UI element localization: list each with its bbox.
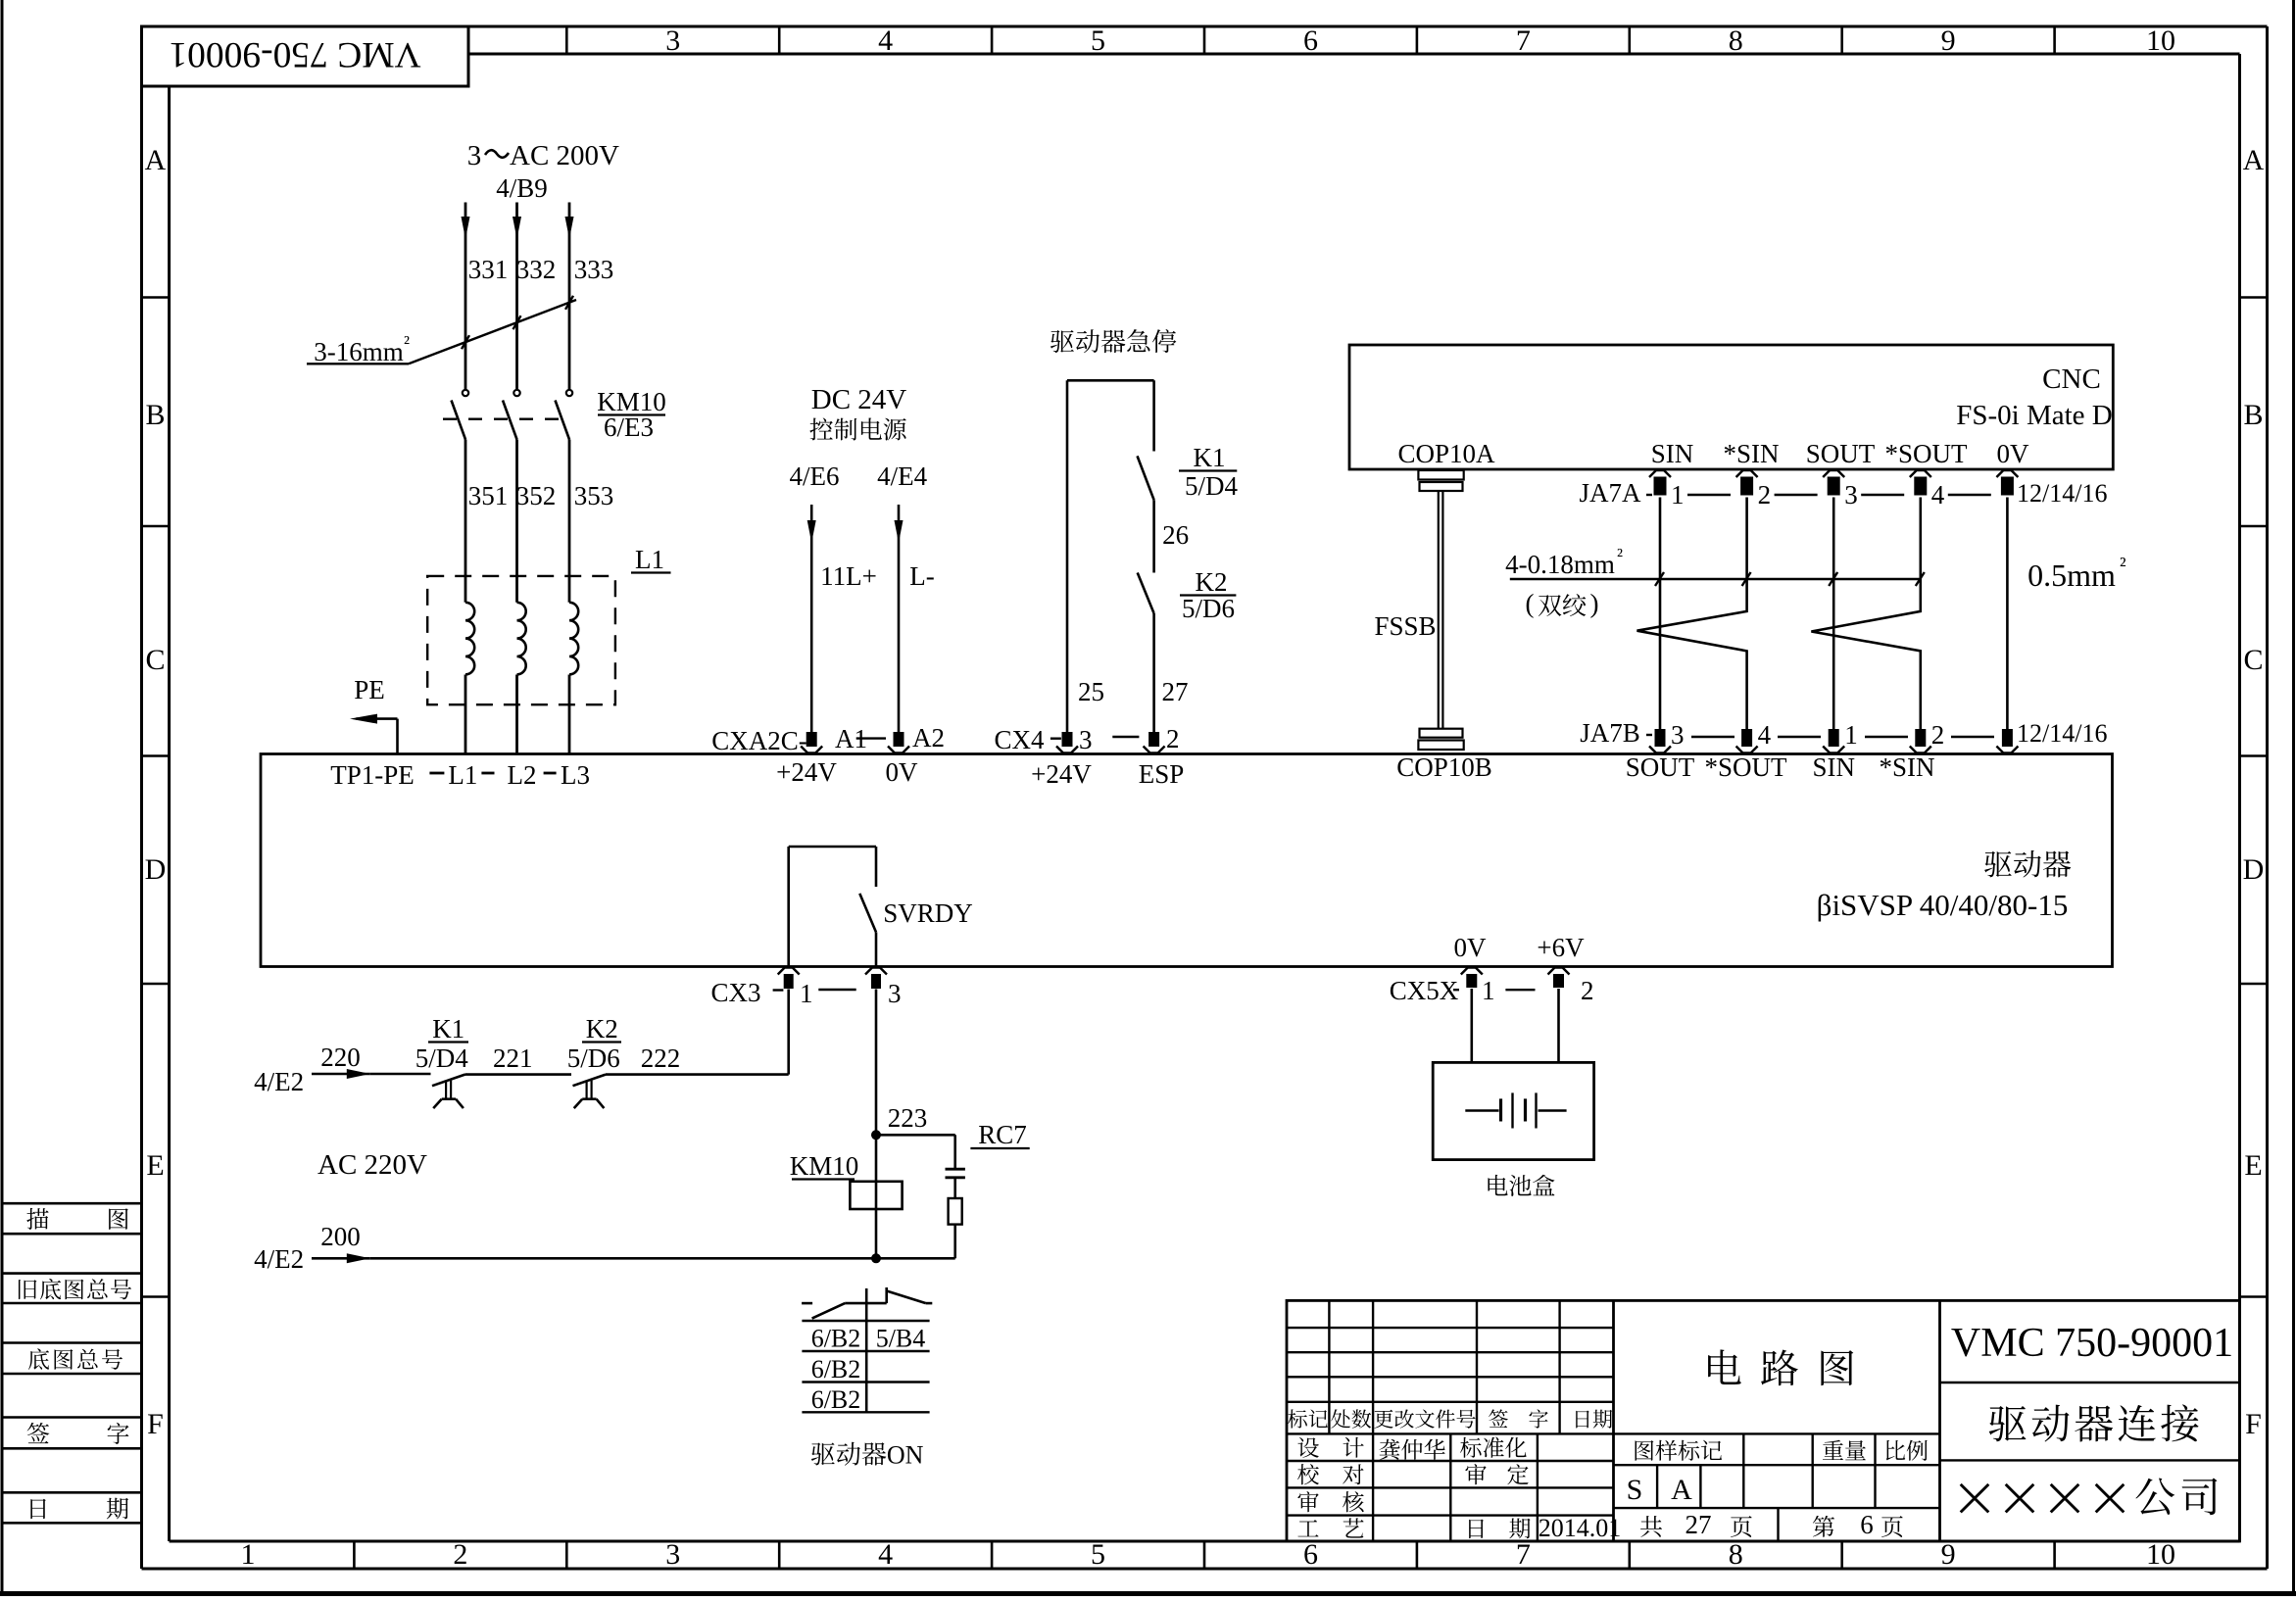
svg-text:βiSVSP 40/40/80-15: βiSVSP 40/40/80-15 <box>1817 888 2069 922</box>
label K1 5/D4 <box>1179 443 1239 501</box>
wire from CX3 pin3 down <box>875 990 878 1259</box>
svg-text:²: ² <box>2120 553 2126 577</box>
svg-text:+24V: +24V <box>776 757 837 787</box>
node label 332 <box>516 255 557 284</box>
svg-text:4-0.18mm: 4-0.18mm <box>1505 550 1615 579</box>
KM10 auxiliary contact diagram <box>802 1287 932 1412</box>
emergency stop loop wires <box>1067 380 1154 735</box>
node label 333 <box>574 255 614 284</box>
svg-text:3: 3 <box>665 24 680 57</box>
svg-text:E: E <box>146 1149 164 1182</box>
svg-text:353: 353 <box>574 481 614 510</box>
svg-text:D: D <box>2243 853 2265 886</box>
middle section grid <box>1614 1433 1940 1541</box>
svg-text:*SOUT: *SOUT <box>1704 752 1787 782</box>
node label 220 <box>320 1043 361 1072</box>
svg-text:200: 200 <box>320 1222 361 1251</box>
svg-text:CX5X: CX5X <box>1390 976 1459 1005</box>
connector CX4 pin 3 <box>994 725 1092 754</box>
svg-text:3: 3 <box>1844 480 1858 509</box>
svg-text:3: 3 <box>467 140 482 171</box>
svg-text:SOUT: SOUT <box>1626 752 1695 782</box>
svg-text:VMC 750-90001: VMC 750-90001 <box>1951 1321 2233 1366</box>
node label 353 <box>574 481 614 510</box>
cells S A <box>1627 1474 1693 1506</box>
reactor coils <box>465 603 578 754</box>
svg-text:3: 3 <box>1079 725 1093 754</box>
svg-text:VMC 750-90001: VMC 750-90001 <box>169 34 420 74</box>
svg-text:5/D4: 5/D4 <box>1185 471 1239 501</box>
label L- <box>909 561 934 591</box>
label 比例 <box>1886 1440 1928 1461</box>
svg-text:221: 221 <box>493 1043 533 1073</box>
svg-text:SIN: SIN <box>1651 439 1694 468</box>
svg-text:+6V: +6V <box>1537 933 1585 962</box>
svg-text:CX3: CX3 <box>710 978 760 1007</box>
svg-text:333: 333 <box>574 255 614 284</box>
connector CXA2C pin A2 <box>856 723 945 753</box>
svg-text:12/14/16: 12/14/16 <box>2017 719 2107 748</box>
FSSB fiber cable <box>1439 491 1443 729</box>
svg-text:PE: PE <box>354 675 385 704</box>
bus terminal labels TP1-PE L1 L2 L3 <box>330 760 590 790</box>
svg-text:0V: 0V <box>1454 933 1488 962</box>
label 底图总号 <box>28 1348 122 1369</box>
relay contact K1 (AC220V row) <box>432 1075 465 1109</box>
label 共 27 页 <box>1640 1510 1752 1539</box>
wire L- with arrow <box>895 505 904 733</box>
label 驱动器急停 <box>1050 329 1177 353</box>
labels SIN *SIN SOUT *SOUT 0V <box>1651 439 2029 468</box>
label AC 220V <box>318 1149 427 1181</box>
svg-text:): ) <box>1590 589 1599 618</box>
svg-text:1: 1 <box>1844 720 1858 750</box>
connector CXA2C pin A1 <box>711 724 867 755</box>
svg-text:1: 1 <box>1482 976 1495 1005</box>
label 电路图 <box>1708 1349 1853 1385</box>
svg-text:2: 2 <box>1931 720 1945 750</box>
label DC 24V <box>811 384 907 415</box>
row 校对 审定 <box>1297 1464 1529 1484</box>
paper border right edge <box>2292 0 2295 1596</box>
svg-text:2: 2 <box>1166 724 1180 753</box>
label 日期 <box>30 1498 128 1520</box>
svg-text:332: 332 <box>516 255 557 284</box>
svg-text:5: 5 <box>1091 1538 1105 1571</box>
connector COP10A <box>1418 470 1463 491</box>
svg-text:A: A <box>145 144 167 176</box>
svg-text:25: 25 <box>1078 677 1104 706</box>
svg-text:COP10B: COP10B <box>1396 752 1492 782</box>
svg-text:5/D6: 5/D6 <box>567 1043 620 1073</box>
svg-text:CXA2C-: CXA2C- <box>711 726 807 755</box>
svg-text:FS-0i Mate D: FS-0i Mate D <box>1956 400 2113 431</box>
svg-text:*SIN: *SIN <box>1879 752 1934 782</box>
revision table rows <box>1287 1300 1614 1433</box>
svg-text:O: O <box>887 1441 905 1470</box>
zone column numbers top <box>665 24 2175 57</box>
svg-text:4: 4 <box>1758 720 1772 750</box>
svg-text:K2: K2 <box>1196 567 1228 597</box>
svg-text:L1: L1 <box>635 545 664 574</box>
zone row ticks and letters left <box>142 144 170 1440</box>
reactor L1 label <box>631 545 671 574</box>
label 0.5mm2 <box>2027 553 2126 593</box>
svg-text:K1: K1 <box>1194 443 1226 472</box>
svg-text:352: 352 <box>516 481 557 510</box>
label FSSB <box>1374 611 1436 641</box>
svg-text:8: 8 <box>1729 1538 1743 1571</box>
label COP10A <box>1397 439 1495 468</box>
node label 27 <box>1162 677 1189 706</box>
label +24V ESP under CX4 <box>1031 759 1184 789</box>
svg-text:6/B2: 6/B2 <box>811 1385 861 1414</box>
paper border left edge <box>1 0 4 1596</box>
label 电池盒 <box>1488 1175 1554 1196</box>
svg-text:K1: K1 <box>432 1014 464 1043</box>
svg-text:223: 223 <box>888 1103 928 1133</box>
label 重量 <box>1823 1440 1866 1461</box>
signal wires with twisted pairs <box>1637 498 2008 736</box>
label 4/E2 (200 feed) <box>254 1244 304 1274</box>
battery symbol <box>1465 1092 1566 1128</box>
svg-text:220: 220 <box>320 1043 361 1072</box>
zone column ticks bottom strip <box>354 1541 2054 1569</box>
wire 200 with arrow <box>312 1253 955 1263</box>
svg-text:12/14/16: 12/14/16 <box>2017 479 2107 508</box>
svg-text:L-: L- <box>909 561 934 591</box>
label KM10 6/E3 <box>597 387 666 442</box>
label 描图 <box>26 1208 128 1230</box>
svg-text:5: 5 <box>1091 24 1105 57</box>
label 0V +6V (CX5X) <box>1454 933 1586 962</box>
svg-text:D: D <box>145 853 167 886</box>
label K2 5/D6 (row) <box>567 1014 621 1073</box>
label 签字 <box>27 1423 129 1444</box>
relay contact K1 <box>1138 456 1154 572</box>
svg-text:4: 4 <box>1931 480 1945 509</box>
svg-text:2: 2 <box>453 1538 467 1571</box>
svg-text:4/E6: 4/E6 <box>790 461 840 491</box>
revision header 标记 处数 更改文件号 签字 日期 <box>1288 1409 1612 1428</box>
connector COP10B <box>1418 729 1463 750</box>
node label 26 <box>1162 520 1189 550</box>
svg-text:222: 222 <box>641 1043 681 1073</box>
svg-text:²: ² <box>404 332 410 354</box>
svg-text:3-16mm: 3-16mm <box>314 337 404 366</box>
label 11L+ <box>820 561 877 591</box>
svg-text:JA7B: JA7B <box>1580 718 1640 748</box>
svg-text:FSSB: FSSB <box>1374 611 1436 641</box>
svg-text:331: 331 <box>468 255 509 284</box>
svg-text:RC7: RC7 <box>978 1120 1027 1149</box>
svg-text:S: S <box>1627 1474 1643 1506</box>
paper border bottom bar <box>0 1591 2296 1596</box>
zone row ticks and letters right <box>2240 144 2268 1440</box>
svg-text:A: A <box>1671 1474 1692 1506</box>
label RC7 <box>970 1120 1029 1149</box>
relay contact K2 <box>1138 573 1154 736</box>
wire 11L+ with arrow <box>807 505 816 733</box>
svg-text:5/B4: 5/B4 <box>876 1325 926 1353</box>
label SVRDY <box>883 898 973 928</box>
PE terminal arrow <box>350 675 398 754</box>
label 4/E4 <box>877 461 927 491</box>
svg-text:6: 6 <box>1303 24 1318 57</box>
label 控制电源 <box>809 417 905 440</box>
label FS-0i Mate D <box>1956 400 2113 431</box>
connector CX4 pin 2 <box>1112 724 1179 753</box>
battery box wires <box>1472 989 1559 1062</box>
svg-text:1: 1 <box>240 1538 255 1571</box>
svg-text:C: C <box>2243 644 2263 676</box>
svg-text:4: 4 <box>878 24 893 57</box>
svg-text:5/D6: 5/D6 <box>1182 594 1235 623</box>
svg-text:7: 7 <box>1516 1538 1531 1571</box>
svg-text:SOUT: SOUT <box>1806 439 1876 468</box>
svg-text:10: 10 <box>2146 24 2175 57</box>
contactor coil KM10 <box>850 1182 902 1209</box>
svg-text:3: 3 <box>1671 720 1685 750</box>
label 4/E2 (220 feed) <box>254 1067 304 1096</box>
connector CX5X pin 1 <box>1390 968 1495 1006</box>
svg-text:*SOUT: *SOUT <box>1884 439 1968 468</box>
svg-text:3: 3 <box>888 979 902 1008</box>
wire 220 with arrow <box>312 1069 431 1079</box>
svg-text:(: ( <box>1526 589 1535 618</box>
label 旧底图总号 <box>19 1279 131 1299</box>
KM10 cross reference table <box>802 1321 929 1412</box>
label 驱动器ON <box>811 1441 924 1470</box>
connector CX3 pin 1 <box>710 968 812 1009</box>
label βiSVSP 40/40/80-15 <box>1817 888 2069 922</box>
title block outline <box>1287 1300 2240 1541</box>
row 审核 <box>1297 1491 1363 1512</box>
svg-text:6: 6 <box>1303 1538 1318 1571</box>
svg-text:6/E3: 6/E3 <box>604 412 654 442</box>
reactor L1 dashed box <box>427 576 615 704</box>
node label 352 <box>516 481 557 510</box>
label 4-0.18mm2 (双绞) <box>1505 545 1925 618</box>
label COP10B <box>1396 752 1492 782</box>
svg-text:26: 26 <box>1162 520 1189 550</box>
servo drive unit box <box>261 754 2113 967</box>
label 3~AC 200V <box>467 140 619 171</box>
relay contact K2 (AC220V row) <box>573 1075 607 1109</box>
svg-text:0V: 0V <box>1997 439 2030 468</box>
svg-text:COP10A: COP10A <box>1397 439 1495 468</box>
svg-text:4/E4: 4/E4 <box>877 461 927 491</box>
svg-text:*SIN: *SIN <box>1723 439 1779 468</box>
label 4/E6 <box>790 461 840 491</box>
connector CX5X pin 2 <box>1505 968 1593 1006</box>
svg-text:1: 1 <box>800 979 813 1008</box>
svg-text:4/E2: 4/E2 <box>254 1067 304 1096</box>
label 驱动器 <box>1984 850 2071 878</box>
svg-text:L3: L3 <box>561 760 590 790</box>
svg-text:4/E2: 4/E2 <box>254 1244 304 1274</box>
label K1 5/D4 (row) <box>415 1014 469 1073</box>
node label 221 <box>493 1043 533 1073</box>
connector CX3 pin 3 <box>818 968 901 1009</box>
svg-text:8: 8 <box>1729 24 1743 57</box>
svg-text:N: N <box>905 1441 924 1470</box>
svg-text:JA7A: JA7A <box>1579 478 1641 508</box>
junction node 223 <box>871 1103 927 1140</box>
svg-text:6: 6 <box>1860 1510 1874 1539</box>
SVRDY internal circuit <box>789 847 876 967</box>
node label 25 <box>1078 677 1104 706</box>
svg-text:27: 27 <box>1162 677 1189 706</box>
table refs 6/B2 5/B4 <box>811 1325 926 1415</box>
svg-text:B: B <box>2243 399 2263 431</box>
label KM10 (coil) <box>790 1151 859 1181</box>
svg-text:AC 200V: AC 200V <box>510 140 619 171</box>
svg-text:6/B2: 6/B2 <box>811 1355 861 1383</box>
signature rows grid <box>1287 1433 1614 1541</box>
battery box 电池盒 <box>1433 1062 1593 1159</box>
svg-text:4: 4 <box>878 1538 893 1571</box>
svg-text:9: 9 <box>1941 1538 1956 1571</box>
node label 331 <box>468 255 509 284</box>
svg-text:DC 24V: DC 24V <box>811 384 907 415</box>
top-left drawing number box VMC 750-90001 (rotated 180) <box>142 26 469 86</box>
svg-text:B: B <box>145 399 165 431</box>
svg-text:CNC: CNC <box>2042 364 2101 395</box>
wire 222 to CX3 pin1 <box>606 990 789 1075</box>
svg-text:SVRDY: SVRDY <box>883 898 973 928</box>
connector JA7B pins <box>1580 718 2107 753</box>
svg-text:A: A <box>2243 144 2265 176</box>
svg-text:K2: K2 <box>586 1014 618 1043</box>
svg-text:2014.01: 2014.01 <box>1539 1514 1622 1542</box>
svg-text:AC 220V: AC 220V <box>318 1149 427 1181</box>
svg-text:7: 7 <box>1516 24 1531 57</box>
label 4/B9 <box>496 173 548 203</box>
svg-text:5/D4: 5/D4 <box>415 1043 469 1073</box>
row 设计 龚仲华 标准化 <box>1297 1437 1526 1460</box>
svg-text:11L+: 11L+ <box>820 561 877 591</box>
label 第 6 页 <box>1813 1510 1903 1539</box>
labels SOUT *SOUT SIN *SIN under JA7B <box>1626 752 1935 782</box>
svg-text:2: 2 <box>1581 976 1594 1005</box>
wire three-phase incoming with arrows <box>462 203 574 390</box>
left margin annotation boxes <box>2 1203 142 1523</box>
svg-text:KM10: KM10 <box>790 1151 859 1181</box>
node label 351 <box>468 481 509 510</box>
svg-text:0.5mm: 0.5mm <box>2027 558 2116 593</box>
svg-text:L1: L1 <box>448 760 477 790</box>
title ××××公司 <box>1961 1478 2218 1515</box>
zone column numbers bottom <box>240 1538 2175 1571</box>
node label 200 <box>320 1222 361 1251</box>
svg-text:TP1-PE: TP1-PE <box>330 760 415 790</box>
svg-text:1: 1 <box>1671 480 1685 509</box>
svg-text:2: 2 <box>1758 480 1772 509</box>
CNC controller box <box>1349 345 2113 469</box>
svg-text:²: ² <box>1617 545 1623 566</box>
svg-text:E: E <box>2244 1149 2262 1182</box>
contactor linkage dashed line <box>443 418 563 420</box>
svg-text:3: 3 <box>665 1538 680 1571</box>
label +24V 0V under CXA2C <box>776 757 918 787</box>
svg-text:351: 351 <box>468 481 509 510</box>
svg-text:F: F <box>147 1408 164 1440</box>
wire 221 <box>465 1073 572 1076</box>
contactor KM10 main contacts <box>452 390 573 603</box>
title 驱动器连接 <box>1940 1404 2240 1460</box>
svg-text:+24V: +24V <box>1031 759 1092 789</box>
node label 222 <box>641 1043 681 1073</box>
svg-text:F: F <box>2245 1408 2262 1440</box>
svg-text:10: 10 <box>2146 1538 2175 1571</box>
label CNC <box>2042 364 2101 395</box>
label 图样标记 <box>1636 1440 1723 1461</box>
svg-text:C: C <box>145 644 165 676</box>
svg-text:SIN: SIN <box>1813 752 1856 782</box>
svg-text:CX4: CX4 <box>994 725 1045 754</box>
svg-text:A2: A2 <box>912 723 945 752</box>
row 工艺 日期 2014.01 <box>1297 1514 1621 1542</box>
connector JA7A pins <box>1579 470 2107 509</box>
cable gauge marker 3-16mm2 <box>307 296 576 366</box>
svg-text:4/B9: 4/B9 <box>496 173 548 203</box>
RC snubber RC7 branch <box>876 1135 965 1258</box>
svg-text:27: 27 <box>1685 1510 1712 1539</box>
svg-text:6/B2: 6/B2 <box>811 1325 861 1353</box>
svg-text:ESP: ESP <box>1139 759 1185 789</box>
title VMC 750-90001 <box>1940 1321 2240 1383</box>
svg-text:0V: 0V <box>886 757 919 787</box>
svg-text:L2: L2 <box>508 760 537 790</box>
label K2 5/D6 <box>1180 567 1236 623</box>
zone column ticks top strip <box>566 26 2054 54</box>
svg-text:9: 9 <box>1941 24 1956 57</box>
